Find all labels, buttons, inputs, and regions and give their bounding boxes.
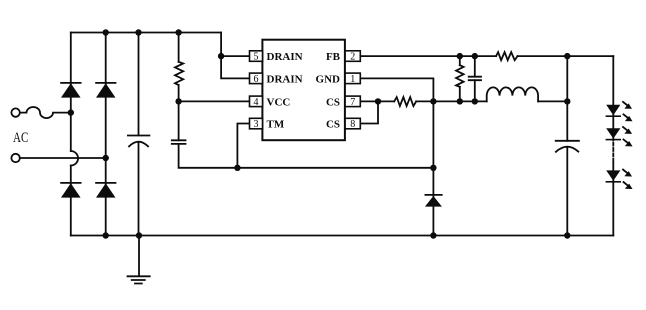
wire startup resistor column <box>178 33 180 62</box>
wire R1 to VCC node <box>178 85 180 140</box>
LED3 <box>606 170 620 180</box>
wire CS node to inductor <box>433 100 486 102</box>
capacitor C4 plate <box>556 140 579 142</box>
node bottom-D4 <box>103 232 109 238</box>
svg-text:FB: FB <box>326 51 341 63</box>
wire bottom rail <box>71 235 614 237</box>
svg-text:VCC: VCC <box>267 96 291 108</box>
terminal bottom <box>11 154 19 162</box>
ground bars <box>128 276 150 283</box>
LED arrows <box>622 101 632 188</box>
LED2 <box>606 128 620 138</box>
node inductor-out <box>564 98 570 104</box>
diode D5 freewheel <box>425 194 443 196</box>
diode D3 bridge bottom-left <box>60 182 81 184</box>
wire C3 bottom lead <box>474 80 476 101</box>
wire filter cap bottom lead <box>138 142 140 236</box>
arrows LED2 <box>622 126 632 146</box>
pin 2 box <box>345 51 360 62</box>
node R3 bottom <box>457 98 463 104</box>
wire FB resistor R3 column <box>459 56 461 65</box>
node C3 bottom <box>472 98 478 104</box>
arrows LED3 <box>622 169 632 189</box>
diode D4 bridge bottom-right <box>95 182 116 184</box>
svg-text:7: 7 <box>350 97 355 108</box>
svg-text:6: 6 <box>254 74 259 85</box>
pin 5 box <box>250 51 263 62</box>
wire LED string bottom <box>612 163 614 235</box>
svg-text:8: 8 <box>350 119 355 130</box>
resistor R1 zigzag <box>175 62 183 85</box>
ground stem <box>138 236 140 276</box>
node bottom-C4 <box>564 232 570 238</box>
resistor R4 zigzag <box>496 52 517 60</box>
resistor R2 zigzag <box>394 97 416 106</box>
capacitor C4 curved plate <box>556 147 578 152</box>
wire GND pin1 to down column <box>360 78 433 235</box>
capacitor C1 plate <box>128 135 149 137</box>
wire R2 to GND column <box>416 100 433 102</box>
svg-text:TM: TM <box>267 119 285 131</box>
terminal top <box>11 108 19 116</box>
capacitor C3 plates <box>469 77 481 81</box>
node bottom-ground <box>136 232 142 238</box>
wire C4 bottom lead <box>566 147 568 236</box>
pin 6 box <box>250 73 263 84</box>
wire CS pin7 stub <box>360 100 394 102</box>
labels <box>13 51 355 146</box>
wire right bridge column <box>105 33 107 236</box>
node return-GND column <box>430 165 436 171</box>
diode D2 bridge top-right <box>95 82 116 84</box>
LED1 <box>606 105 620 115</box>
svg-text:AC: AC <box>13 130 28 146</box>
svg-text:CS: CS <box>326 96 340 108</box>
svg-text:1: 1 <box>350 74 355 85</box>
wire VCC stub <box>179 100 250 102</box>
node FB-out <box>564 53 570 59</box>
node FB-R3 <box>457 53 463 59</box>
wire output node column <box>566 56 568 141</box>
wire filter cap top lead <box>138 33 140 136</box>
node VCC <box>175 98 181 104</box>
wire hop over AC bottom wire <box>71 151 78 166</box>
svg-text:DRAIN: DRAIN <box>267 73 303 85</box>
wire LED string top <box>612 56 614 140</box>
node rail-D2 <box>103 29 109 35</box>
inductor L1 <box>487 87 538 101</box>
wire C3 top lead <box>474 56 476 77</box>
node CS-GND <box>430 98 436 104</box>
wire R4 to LED corner <box>518 55 614 57</box>
svg-text:4: 4 <box>254 97 259 108</box>
node drain pin5 <box>218 53 224 59</box>
wire drain feed: rail corner down to pin6 row then to pin6 box <box>221 33 249 79</box>
resistor R3 zigzag <box>456 65 464 87</box>
svg-text:5: 5 <box>254 52 259 63</box>
wire AC top lead with fuse <box>20 107 71 118</box>
capacitor C2 plates <box>172 140 186 144</box>
wire R3 bottom <box>459 87 461 102</box>
node bottom-D5 <box>430 232 436 238</box>
svg-text:2: 2 <box>350 52 355 63</box>
wire dotted LED continuation <box>612 143 614 164</box>
pin 1 box <box>345 73 360 84</box>
node AC bottom <box>103 155 109 161</box>
wire pin8 riser <box>360 101 378 123</box>
svg-text:DRAIN: DRAIN <box>267 51 303 63</box>
node rail-R1 <box>175 29 181 35</box>
node FB-C3 <box>472 53 478 59</box>
wire pin5 stub <box>221 55 249 57</box>
wire C2 bottom to GND return <box>179 144 434 168</box>
wire inductor to output node <box>538 100 567 102</box>
op IC U1 body <box>262 40 345 141</box>
wire left bridge column lower <box>70 166 72 236</box>
diode D1 bridge top-left <box>60 82 81 84</box>
node rail-C1 <box>135 29 141 35</box>
AC terminals <box>11 108 19 162</box>
pin 7 box <box>345 96 360 107</box>
node CS tie <box>375 98 381 104</box>
arrows LED1 <box>622 101 632 121</box>
pin 4 box <box>250 96 263 107</box>
wire TM stub <box>237 124 249 168</box>
pin 3 box <box>250 118 263 129</box>
node AC top <box>68 109 74 115</box>
svg-text:CS: CS <box>326 119 340 131</box>
wire AC bottom lead <box>20 157 106 159</box>
wire FB row: pin2 to LED top corner <box>360 55 496 57</box>
pin 8 box <box>345 118 360 129</box>
capacitor C1 curved plate <box>129 142 148 147</box>
svg-text:GND: GND <box>316 73 341 85</box>
wire top rail <box>71 32 221 34</box>
node TM return <box>234 165 240 171</box>
svg-text:3: 3 <box>254 119 259 130</box>
wire left bridge column upper <box>70 33 72 152</box>
pin boxes <box>250 51 361 129</box>
